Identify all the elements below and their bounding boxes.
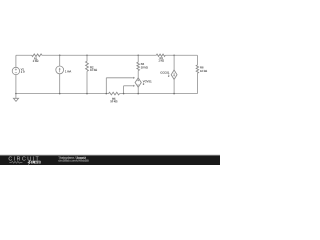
ground: [15, 94, 17, 99]
wire CCCS1 bottom: [173, 79, 175, 93]
svg-text:circuitlab.com/c/49rb5f8: circuitlab.com/c/49rb5f8: [58, 159, 89, 163]
wire V1 top: [15, 55, 17, 67]
junction CCCS1 bottom: [173, 93, 175, 95]
junction control + tap: [106, 93, 108, 95]
wire VCVS1 control +: [105, 78, 107, 94]
resistor R3: [156, 54, 165, 56]
wire VCVS1 bottom: [137, 87, 139, 93]
wire I1 top: [59, 55, 61, 66]
svg-text:LAB: LAB: [32, 160, 40, 164]
junction R2 bottom: [86, 93, 88, 95]
wire top rail: [16, 54, 32, 56]
wire VCVS1 control -: [123, 86, 125, 94]
VCVS1 control pin -: [133, 85, 135, 87]
wire R4 to VCVS1: [137, 71, 139, 78]
wire right top corner: [196, 55, 198, 65]
resistor R2: [86, 61, 89, 71]
dependent source CCCS1: [171, 70, 177, 79]
wire R2 top: [86, 55, 88, 61]
resistor R6: [196, 65, 198, 73]
dependent source VCVS1: [135, 78, 141, 87]
wire CCCS1 top: [173, 55, 175, 70]
VCVS1 control pin +: [133, 77, 135, 79]
junction ground node: [15, 93, 17, 95]
resistor R1: [32, 54, 42, 57]
junction CCCS1 top: [173, 54, 175, 56]
junction VCVS1 bottom: [137, 93, 139, 95]
junction R2 top: [86, 54, 88, 56]
wire I1 bottom: [59, 74, 61, 94]
resistor R4: [137, 62, 140, 70]
wire R4 top: [137, 55, 139, 62]
junction I1 bottom: [59, 93, 61, 95]
junction I1 top: [59, 54, 61, 56]
wire right bottom: [196, 73, 198, 93]
junction R4 top: [137, 54, 139, 56]
junction control - tap: [123, 93, 125, 95]
resistor R5: [109, 92, 120, 95]
wire V1 bottom: [15, 75, 17, 94]
wire R2 bottom: [86, 71, 88, 93]
wire bottom rail: [16, 93, 109, 95]
current source I1: [56, 66, 64, 74]
voltage source V1: [12, 67, 19, 74]
